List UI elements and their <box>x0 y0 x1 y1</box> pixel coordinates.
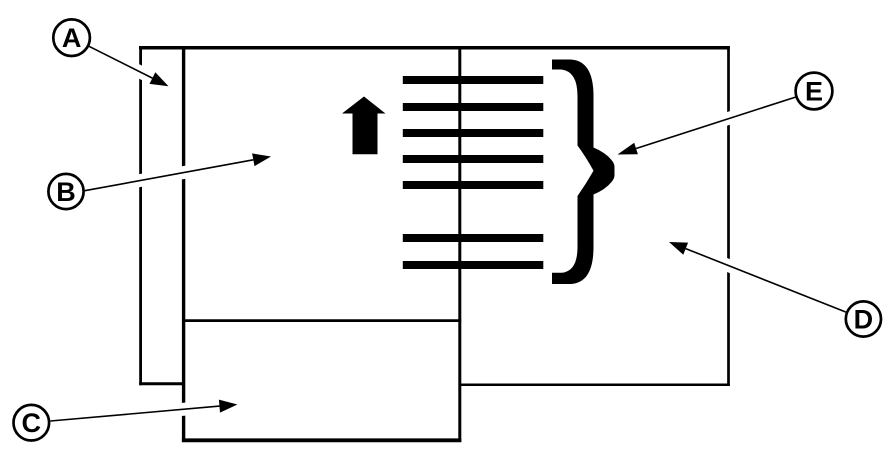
casing leader D <box>669 242 846 312</box>
casing leader C <box>50 405 237 422</box>
bar 4 <box>403 155 544 163</box>
leader arrow D <box>686 249 846 312</box>
svg-text:E: E <box>805 76 823 106</box>
casing leader A <box>88 46 168 86</box>
bar 1 <box>403 76 544 84</box>
printed text bars <box>403 76 544 269</box>
svg-text:C: C <box>22 408 42 438</box>
left inner vertical V2 <box>182 46 185 442</box>
leader lines and arrowheads <box>50 46 845 421</box>
bar 3 <box>403 129 544 137</box>
leader arrow E <box>636 97 795 148</box>
casing leader E <box>617 97 796 154</box>
callout circle C <box>14 405 50 441</box>
middle vertical V3 <box>458 46 461 442</box>
svg-text:B: B <box>56 177 76 207</box>
callout circle D <box>846 301 881 336</box>
divider H2 top of bottom box C <box>183 319 462 322</box>
callout circle E <box>796 73 833 110</box>
leader line white casings <box>50 46 845 421</box>
bar 7 <box>403 261 544 269</box>
leader arrow B <box>85 160 254 191</box>
bottom edge H4 of left strip A <box>139 382 183 385</box>
bar 6 <box>403 234 544 242</box>
casing leader B <box>85 157 271 191</box>
svg-text:D: D <box>854 304 874 334</box>
leader arrow C <box>50 406 219 421</box>
left outer vertical V1 (part A strip) <box>139 46 142 385</box>
callout circle A <box>53 19 90 56</box>
callout circle B <box>48 174 83 209</box>
bar 5 <box>403 181 544 189</box>
svg-text:A: A <box>62 23 82 53</box>
bottom edge H5 of bottom box C <box>182 438 461 442</box>
bottom edge H3 of right box D <box>460 384 730 387</box>
top edge H1 <box>139 46 730 50</box>
feed direction up arrow <box>342 97 386 155</box>
rectangle outlines <box>139 46 730 442</box>
curly brace <box>552 60 615 285</box>
leader arrow A <box>88 46 152 78</box>
right vertical V4 <box>727 46 730 386</box>
bar 2 <box>403 103 544 111</box>
